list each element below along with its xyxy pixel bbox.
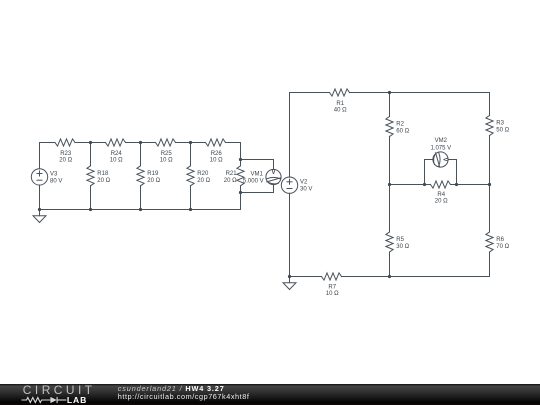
svg-text:R2: R2 [396,122,404,128]
junction [139,141,142,144]
wire [90,186,92,210]
svg-text:VM1: VM1 [250,172,263,178]
svg-text:R5: R5 [396,237,404,243]
svg-text:V: V [441,157,447,161]
voltmeter VM1 [243,169,281,184]
wire [39,185,41,210]
resistor R18 [87,166,111,186]
svg-text:20 Ω: 20 Ω [224,178,237,184]
junction [189,141,192,144]
resistor R2 [386,117,410,137]
logo wire-resistor-diode [22,397,67,403]
svg-text:R26: R26 [211,151,223,157]
junction [89,208,92,211]
svg-text:10 Ω: 10 Ω [326,291,339,297]
svg-text:60 Ω: 60 Ω [396,129,409,135]
wire [40,209,241,211]
wire [451,184,490,186]
wire [241,185,274,193]
svg-text:20 Ω: 20 Ω [435,199,448,205]
svg-text:R6: R6 [496,237,504,243]
svg-text:V: V [271,170,275,176]
svg-text:V3: V3 [50,172,58,178]
resistor R23 [55,139,75,164]
junction [423,183,426,186]
wire [40,142,56,144]
resistor R25 [156,139,176,164]
wire [425,160,433,185]
wire [290,92,330,94]
resistor R7 [322,273,342,297]
wire [226,142,241,144]
wire [140,143,142,166]
ground [33,210,46,223]
junction [388,183,391,186]
svg-text:R18: R18 [97,171,109,177]
wire [390,184,431,186]
svg-text:R4: R4 [437,192,445,198]
resistor R24 [106,139,126,164]
svg-text:R25: R25 [161,151,173,157]
junction [388,91,391,94]
junction [189,208,192,211]
svg-text:30 V: 30 V [300,187,312,193]
svg-text:20 Ω: 20 Ω [59,158,72,164]
ground [283,277,296,290]
svg-text:R7: R7 [328,284,336,290]
wire [350,92,490,94]
svg-text:40 Ω: 40 Ω [334,108,347,114]
svg-text:5.000 V: 5.000 V [243,179,264,185]
svg-text:70 Ω: 70 Ω [496,244,509,250]
junction [388,275,391,278]
wire [190,186,192,210]
resistor R1 [330,89,350,114]
voltmeter VM2 [430,138,451,167]
wire [342,276,490,278]
voltage source V3 [31,169,62,185]
wire [489,93,491,116]
svg-text:R19: R19 [147,171,159,177]
wire [126,142,156,144]
svg-text:80 V: 80 V [50,179,62,185]
junction [288,275,291,278]
svg-text:R24: R24 [111,151,123,157]
wire [489,252,491,277]
wire [389,137,391,233]
junction [488,183,491,186]
wire [75,142,106,144]
wire [290,276,322,278]
wire [90,143,92,166]
resistor R20 [187,166,211,186]
svg-text:20 Ω: 20 Ω [97,178,110,184]
junction [455,183,458,186]
wire [190,143,192,166]
resistor R26 [206,139,226,164]
wire [448,160,456,185]
wire [489,136,491,233]
svg-text:VM2: VM2 [435,138,448,144]
junction [89,141,92,144]
wire [240,143,242,166]
svg-text:R20: R20 [197,171,209,177]
wire [39,143,41,169]
svg-text:1.075 V: 1.075 V [430,146,451,152]
svg-text:R23: R23 [60,151,72,157]
svg-text:R21: R21 [226,171,238,177]
svg-text:10 Ω: 10 Ω [160,158,173,164]
svg-text:30 Ω: 30 Ω [396,244,409,250]
junction [239,191,242,194]
wire [389,93,391,117]
junction [38,208,41,211]
wire [241,160,274,170]
svg-text:R1: R1 [336,101,344,107]
resistor R6 [486,232,510,252]
wire [140,186,142,210]
svg-text:R3: R3 [496,121,504,127]
junction [139,208,142,211]
resistor R3 [486,116,510,136]
svg-text:50 Ω: 50 Ω [496,128,509,134]
junction [239,158,242,161]
svg-text:V2: V2 [300,180,308,186]
resistor R5 [386,232,410,252]
svg-text:20 Ω: 20 Ω [197,178,210,184]
svg-text:10 Ω: 10 Ω [210,158,223,164]
wire [289,193,291,276]
resistor R21 [224,166,244,186]
resistor R19 [137,166,161,186]
wire [176,142,206,144]
svg-text:20 Ω: 20 Ω [147,178,160,184]
wire [289,93,291,178]
wire [389,252,391,277]
voltage source V2 [281,177,312,193]
svg-text:10 Ω: 10 Ω [110,158,123,164]
resistor R4 [431,181,451,205]
wire [240,186,242,210]
